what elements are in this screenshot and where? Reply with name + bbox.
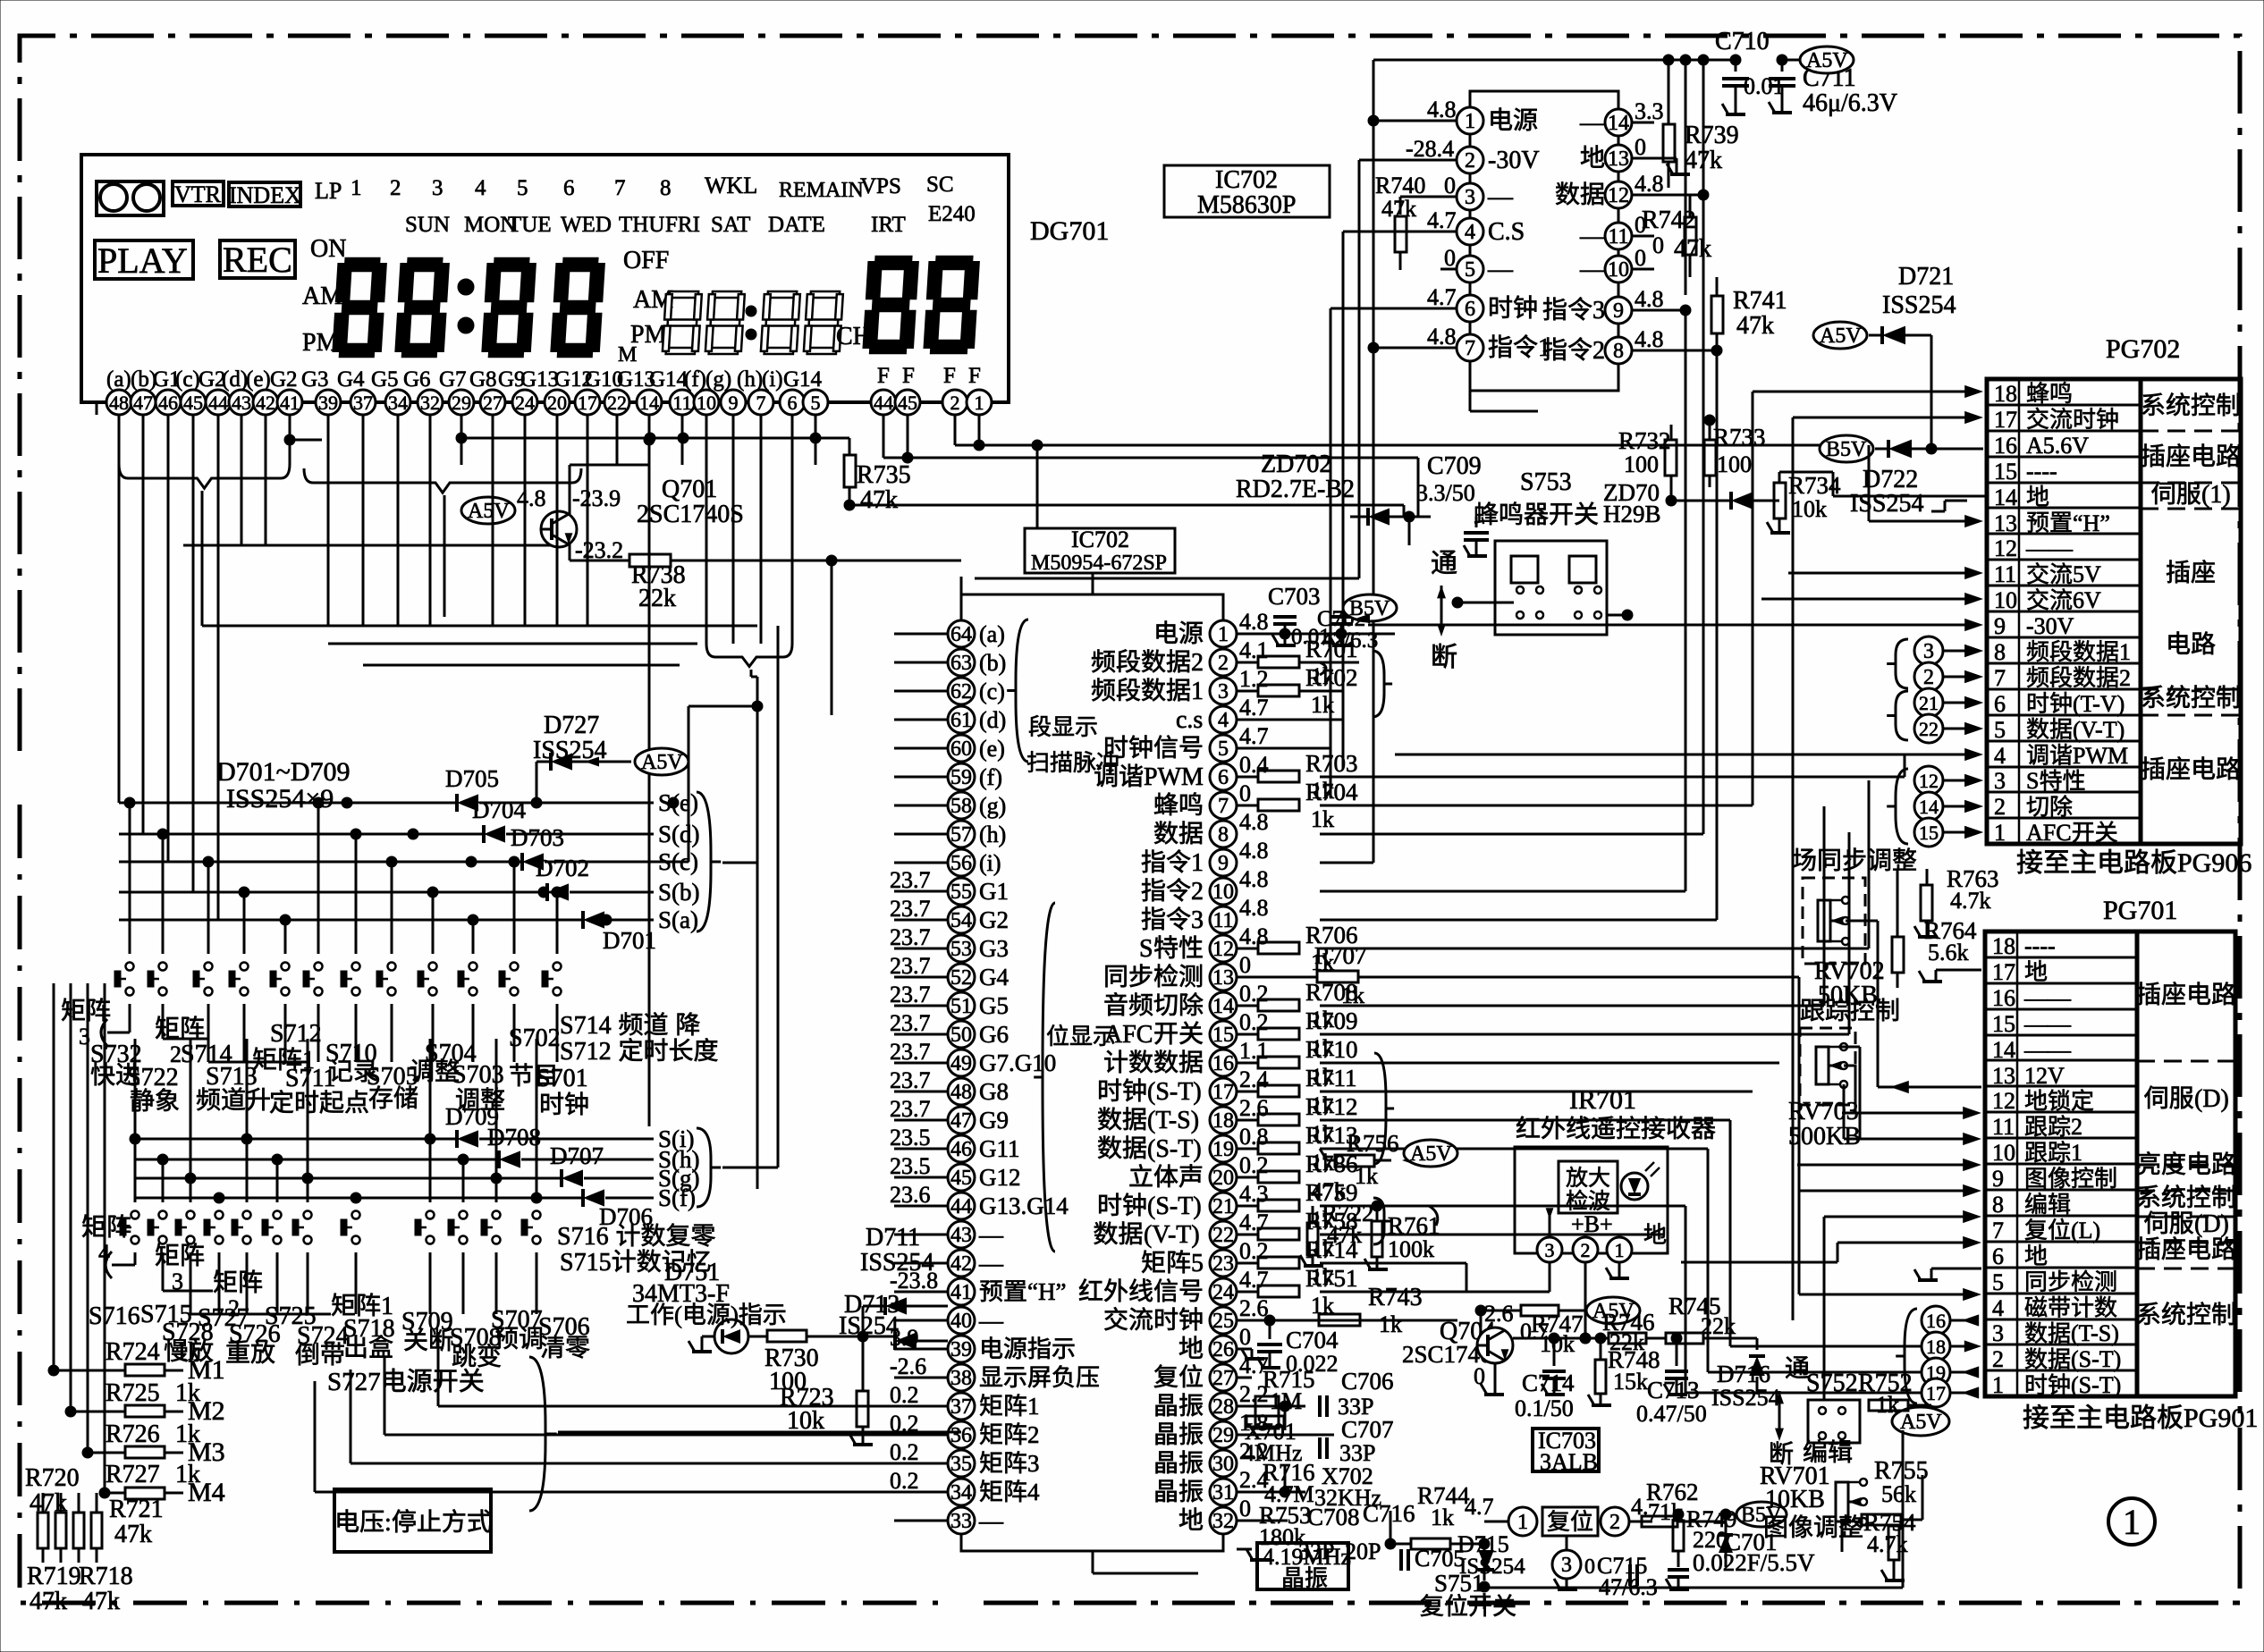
- svg-text:(T-S): (T-S): [2071, 1320, 2119, 1346]
- IC702 pin 34: [948, 1479, 975, 1505]
- circled node 22: [1914, 714, 1943, 743]
- svg-text:4.7k: 4.7k: [1950, 888, 1991, 914]
- wire trunk data VT: [1320, 1234, 1663, 1236]
- svg-text:S716: S716: [89, 1302, 140, 1330]
- IC702 pin 38: [948, 1364, 975, 1391]
- diode D716: [1756, 1338, 1759, 1350]
- matrix bank1 bottom bus: [129, 1021, 131, 1032]
- svg-text:(f): (f): [979, 764, 1002, 790]
- resistor R748: [1600, 1338, 1601, 1355]
- resistor R739: [1668, 60, 1670, 125]
- svg-text:63: 63: [950, 652, 972, 675]
- IC702 pin 33: [948, 1507, 975, 1534]
- svg-text:C704: C704: [1286, 1327, 1339, 1353]
- diode D707: [135, 1177, 561, 1180]
- IC U1 label IC702 M50954-672SP: [1025, 528, 1175, 573]
- supply node A5V lower right: [1892, 1407, 1949, 1436]
- svg-text:4.19MHz: 4.19MHz: [1263, 1544, 1351, 1570]
- IC702 pin 11: [1210, 906, 1237, 933]
- svg-text:12: 12: [1212, 938, 1234, 961]
- svg-text:G4: G4: [979, 964, 1009, 990]
- svg-text:47k: 47k: [30, 1588, 67, 1615]
- brace nodes 12-14-15: [1887, 769, 1908, 844]
- svg-text:46: 46: [158, 392, 178, 414]
- svg-text:1: 1: [1517, 1511, 1528, 1534]
- svg-text:6: 6: [563, 176, 575, 200]
- svg-text:ZD702: ZD702: [1261, 451, 1331, 478]
- svg-text:G5: G5: [979, 992, 1009, 1019]
- svg-text:(V-T): (V-T): [1144, 1221, 1200, 1249]
- wire trunk buzzer: [1752, 392, 1754, 805]
- svg-text:PG906: PG906: [2177, 848, 2251, 878]
- circled sheet number 1: [2108, 1498, 2155, 1545]
- wire trunk image ctl RV701: [1841, 1482, 1843, 1513]
- REC indicator: [220, 240, 295, 278]
- svg-text:10: 10: [1992, 1140, 2015, 1166]
- wire matrix bank1 S-row collector brace: [697, 792, 721, 931]
- svg-text:47k: 47k: [82, 1588, 120, 1615]
- resistor R732: [1665, 440, 1677, 476]
- svg-text:SC: SC: [926, 173, 954, 197]
- wire matrix buses to IC pins 37-34: [438, 1405, 948, 1408]
- main clock digits 88:88: [333, 258, 386, 357]
- svg-text:1: 1: [1191, 678, 1204, 705]
- svg-text:R761: R761: [1388, 1212, 1440, 1239]
- svg-text:C714: C714: [1522, 1370, 1575, 1396]
- svg-text:24: 24: [515, 392, 535, 414]
- wire PG701 13 arrow: [1890, 1081, 1909, 1093]
- svg-text:S(a): S(a): [658, 906, 698, 933]
- wire PG701 12 11 10 arrows: [1963, 1107, 1981, 1119]
- ground M58630P pin13: [1676, 158, 1678, 174]
- svg-text:3: 3: [432, 176, 444, 200]
- svg-text:1k: 1k: [1379, 1311, 1402, 1337]
- svg-text:R732: R732: [1618, 427, 1671, 454]
- wire M58630P bottom: [1469, 391, 1472, 411]
- svg-text:9: 9: [1218, 852, 1229, 875]
- svg-text:28: 28: [1212, 1395, 1234, 1419]
- svg-text:R721: R721: [109, 1496, 164, 1523]
- svg-text:46: 46: [950, 1138, 972, 1161]
- svg-text:M58630P: M58630P: [1197, 191, 1296, 219]
- svg-text:S718: S718: [343, 1315, 395, 1343]
- wire R749 junction to D717 B5V: [1678, 1521, 1726, 1522]
- M58630P pin 14: [1605, 109, 1632, 136]
- svg-text:REMAIN: REMAIN: [779, 179, 864, 202]
- svg-text:5: 5: [811, 392, 821, 414]
- svg-text:(c): (c): [979, 678, 1005, 704]
- svg-text:1: 1: [1191, 849, 1204, 877]
- PG702 group labels: [2142, 393, 2164, 416]
- svg-text:D707: D707: [550, 1142, 604, 1169]
- svg-text:R735: R735: [857, 461, 911, 489]
- wire RV702 wiper: [1796, 1165, 1798, 1191]
- M58630P pin 2: [1457, 147, 1483, 173]
- brace R701 R702 pair: [1373, 651, 1392, 717]
- matrix bank2 verticals: [134, 1139, 137, 1202]
- svg-text:ISS254: ISS254: [1850, 490, 1923, 518]
- svg-text:4.7: 4.7: [1427, 207, 1457, 233]
- svg-text:27: 27: [1212, 1367, 1234, 1390]
- wire bus pins7-6-5: [644, 434, 655, 445]
- wire RV701 to image adjust: [1841, 1521, 1844, 1552]
- svg-text:2: 2: [1992, 1346, 2004, 1372]
- IC702 pin 30: [1210, 1450, 1237, 1477]
- svg-text:59: 59: [950, 766, 972, 789]
- svg-text:12: 12: [1608, 184, 1629, 207]
- brace M1-M4: [529, 1357, 557, 1511]
- svg-text:A5V: A5V: [641, 751, 683, 774]
- svg-text:24: 24: [1212, 1281, 1234, 1304]
- svg-text:1k: 1k: [175, 1379, 200, 1407]
- svg-text:C.S: C.S: [1488, 218, 1525, 246]
- svg-text:1: 1: [2071, 1140, 2082, 1166]
- voltage note box: [334, 1489, 491, 1552]
- svg-text:IR701: IR701: [1569, 1085, 1636, 1115]
- svg-text:2.4: 2.4: [1239, 1066, 1269, 1092]
- PG701 pin 2: [1985, 1344, 2137, 1346]
- svg-text:0: 0: [1239, 1496, 1251, 1521]
- matrix bank2 buses: [80, 1252, 82, 1265]
- svg-text:56: 56: [950, 852, 972, 875]
- wire R735 bus: [849, 504, 1404, 507]
- svg-text:0.2: 0.2: [1239, 1009, 1269, 1035]
- pull resistors R719 R718: [38, 1513, 48, 1548]
- svg-text:3: 3: [1191, 906, 1204, 934]
- PG702 pin 2: [1987, 791, 2141, 794]
- svg-text:4.8: 4.8: [1239, 866, 1269, 892]
- svg-text:R727: R727: [106, 1461, 160, 1488]
- PG702 pin 6: [1987, 688, 2141, 691]
- IC702 pin 32: [1210, 1507, 1237, 1534]
- svg-text:29: 29: [1212, 1424, 1234, 1447]
- wire IR out to pin24: [1549, 1262, 1551, 1292]
- wire IC bottom to ground trace: [1092, 1551, 1094, 1573]
- svg-text:3: 3: [1561, 1554, 1572, 1577]
- svg-text:PG702: PG702: [2106, 334, 2180, 364]
- M58630P pin 6: [1457, 295, 1483, 322]
- svg-text:4: 4: [475, 176, 486, 200]
- svg-text:45: 45: [183, 392, 203, 414]
- svg-text:2: 2: [1191, 649, 1204, 677]
- capacitor C713: [1671, 1333, 1682, 1344]
- svg-text:1: 1: [975, 392, 984, 414]
- IC702 pin 48: [948, 1078, 975, 1105]
- svg-text:(T-V): (T-V): [2073, 691, 2125, 717]
- wire long verticals from display to matrix: [118, 465, 121, 803]
- wire R738 junction vertical: [831, 560, 833, 715]
- IC702 pin 27: [1210, 1364, 1237, 1391]
- svg-text:—: —: [1579, 223, 1606, 250]
- svg-text:(S-T): (S-T): [2071, 1346, 2121, 1372]
- PG701 pin 7: [1985, 1215, 2137, 1218]
- diode D706: [135, 1197, 582, 1200]
- svg-text:H29B: H29B: [1603, 501, 1661, 527]
- wire trunk 12V RV702: [1878, 920, 1887, 922]
- circled node 18: [1922, 1332, 1950, 1361]
- svg-text:17: 17: [1992, 959, 2015, 985]
- svg-text:S712: S712: [270, 1020, 322, 1048]
- IC702 pin 45: [948, 1164, 975, 1191]
- svg-text:2: 2: [1465, 149, 1475, 173]
- svg-text:D711: D711: [866, 1224, 920, 1252]
- svg-text:—: —: [978, 1307, 1004, 1334]
- svg-text:G13.G14: G13.G14: [979, 1193, 1069, 1219]
- svg-text:G2: G2: [270, 367, 298, 392]
- svg-text:6: 6: [788, 392, 798, 414]
- svg-text::: :: [384, 1509, 392, 1537]
- IC702 pin 4: [1210, 706, 1237, 733]
- circled node 16: [1922, 1306, 1950, 1335]
- svg-text:2: 2: [1218, 652, 1229, 675]
- svg-text:ISS254: ISS254: [1711, 1385, 1780, 1411]
- svg-text:S715: S715: [560, 1249, 612, 1277]
- label PG906: [2017, 849, 2042, 874]
- svg-text:—: —: [978, 1250, 1004, 1277]
- M58630P pin 10: [1605, 256, 1632, 282]
- reset block circles: [1508, 1507, 1537, 1536]
- long wire main IC pins to right connectors: [1320, 662, 1326, 675]
- svg-text:37: 37: [353, 392, 373, 414]
- svg-text:0: 0: [1652, 232, 1664, 258]
- wires from display pins down: [118, 415, 121, 465]
- potentiometer RV702: [1803, 878, 1865, 964]
- resistor R708: [1237, 1005, 1257, 1007]
- svg-text:18: 18: [1926, 1336, 1946, 1358]
- svg-text:C709: C709: [1427, 452, 1482, 480]
- wire C705 cap: [1399, 1549, 1403, 1571]
- svg-text:0: 0: [1444, 173, 1456, 198]
- resistor R740: [1395, 216, 1407, 252]
- svg-text:1: 1: [1992, 1372, 2004, 1398]
- IC702 pin 44: [948, 1193, 975, 1219]
- IC702 pin 12: [1210, 935, 1237, 962]
- PG701 pin 13: [1985, 1059, 2137, 1062]
- wire trunk matrix5: [1320, 1262, 1466, 1265]
- svg-text:3: 3: [1923, 640, 1934, 663]
- circled node 15: [1914, 818, 1943, 847]
- wire bank1 col drops to bus: [616, 438, 619, 465]
- svg-text:-2.6: -2.6: [890, 1353, 926, 1379]
- svg-text:64: 64: [950, 623, 972, 646]
- IC702 pin 36: [948, 1421, 975, 1448]
- resistor R761: [1372, 1221, 1382, 1257]
- svg-text:0: 0: [1239, 952, 1251, 978]
- svg-text:1.2: 1.2: [1239, 666, 1269, 692]
- IC702 pin 1: [1210, 620, 1237, 647]
- svg-text:4.7: 4.7: [1239, 1267, 1269, 1293]
- svg-text:c.s: c.s: [1176, 706, 1203, 734]
- wire pin26 ground: [1237, 1348, 1252, 1351]
- wire trunk clock ST2: [1320, 1205, 1685, 1208]
- svg-text:16: 16: [1994, 433, 2017, 459]
- IC702 pin 40: [948, 1307, 975, 1334]
- wire bus middle verticals: [1668, 188, 1669, 392]
- svg-text:(S-T): (S-T): [2071, 1372, 2121, 1398]
- svg-text:2: 2: [1923, 666, 1934, 689]
- capacitor C704: [1264, 1315, 1275, 1326]
- svg-text:0.1/50: 0.1/50: [1515, 1395, 1574, 1421]
- svg-text:58: 58: [950, 795, 972, 818]
- svg-text:G14: G14: [649, 367, 688, 392]
- label tracking control: [1801, 999, 1824, 1022]
- svg-text:G8: G8: [979, 1078, 1009, 1105]
- svg-text:2: 2: [1581, 1239, 1591, 1261]
- svg-text:): ): [731, 1302, 739, 1328]
- wire pin14 long vertical: [648, 440, 651, 1126]
- svg-text:S727: S727: [327, 1368, 381, 1396]
- wires crystal cluster: [1237, 1405, 1305, 1408]
- wire sync det down: [1798, 1294, 1800, 1295]
- svg-text:32: 32: [1212, 1510, 1234, 1533]
- svg-text:R733: R733: [1713, 424, 1766, 451]
- capacitor C714: [1553, 1338, 1555, 1359]
- IC702 pin 42: [948, 1250, 975, 1277]
- IC702 pin 10: [1210, 878, 1237, 905]
- svg-text:——: ——: [2025, 535, 2074, 561]
- wire IC702 label box stub: [1092, 572, 1094, 594]
- svg-text:——: ——: [2023, 985, 2072, 1011]
- resistor R756: [1335, 1155, 1374, 1167]
- svg-text:5: 5: [1994, 717, 2006, 743]
- svg-text:D702: D702: [536, 855, 589, 881]
- svg-text:7: 7: [1994, 665, 2006, 691]
- label PG901: [2023, 1404, 2049, 1429]
- svg-text:19: 19: [1212, 1138, 1234, 1161]
- svg-text:34: 34: [388, 392, 408, 414]
- svg-text:3: 3: [1027, 1450, 1040, 1477]
- svg-text:21: 21: [1212, 1195, 1234, 1218]
- svg-text:11: 11: [1212, 909, 1233, 932]
- svg-text:A5V: A5V: [1900, 1411, 1942, 1434]
- IR701 LED: [1621, 1173, 1648, 1200]
- wire pin7 pin6 drops to brace: [760, 415, 763, 644]
- wire r756 feed: [1320, 1149, 1327, 1160]
- svg-text:DG701: DG701: [1030, 216, 1109, 246]
- wire trunk data TS: [1320, 1119, 1730, 1122]
- PG702 pin 4: [1987, 740, 2141, 743]
- svg-text:M: M: [618, 343, 637, 367]
- svg-text:0.2: 0.2: [1239, 1152, 1269, 1178]
- IC702 pin 22: [1210, 1221, 1237, 1248]
- PG702 pin 13: [1987, 507, 2141, 510]
- diode D711 on pin41: [885, 1297, 907, 1314]
- svg-text:5: 5: [1465, 258, 1475, 282]
- svg-text:G8: G8: [469, 367, 497, 392]
- M58630P pin 9: [1605, 297, 1632, 324]
- IC702 M50954-672SP body: [961, 594, 1223, 1551]
- svg-text:0: 0: [1635, 245, 1646, 271]
- wire R755 R754 net: [1861, 1519, 1863, 1521]
- wire trunk reset pin27: [1237, 1377, 1252, 1379]
- svg-text:0.2: 0.2: [1239, 1238, 1269, 1264]
- resistor R713: [1237, 1148, 1257, 1150]
- svg-text:G6: G6: [403, 367, 431, 392]
- svg-text:39: 39: [318, 392, 338, 414]
- IC702 pin 23: [1210, 1250, 1237, 1277]
- wire trunk sync detect: [1798, 977, 1801, 1294]
- PG701 pin 15: [1985, 1008, 2137, 1011]
- svg-text:D716: D716: [1717, 1361, 1770, 1387]
- IR701 pins 3 2 1: [1537, 1237, 1562, 1262]
- M58630P pin 12: [1605, 181, 1632, 208]
- svg-text:4: 4: [1027, 1479, 1040, 1505]
- svg-text:17: 17: [1926, 1382, 1946, 1404]
- svg-text:47: 47: [950, 1109, 972, 1133]
- IC702 pin 41: [948, 1278, 975, 1305]
- svg-text:10k: 10k: [787, 1407, 824, 1435]
- supply node A5V ir: [1586, 1297, 1640, 1324]
- svg-text:G12: G12: [979, 1164, 1021, 1191]
- svg-text:4.1: 4.1: [1239, 637, 1269, 663]
- svg-text:15: 15: [1919, 822, 1939, 844]
- svg-text:A5V: A5V: [1806, 49, 1848, 72]
- svg-text:THU: THU: [619, 213, 664, 237]
- svg-text:R707: R707: [1314, 942, 1367, 969]
- svg-text:C713: C713: [1647, 1377, 1700, 1403]
- svg-text:2: 2: [1994, 794, 2006, 820]
- svg-text:10: 10: [1212, 881, 1234, 904]
- svg-text:23.7: 23.7: [890, 1096, 931, 1122]
- svg-text:23.7: 23.7: [890, 896, 931, 922]
- wire from S752 right: [1930, 1404, 1932, 1406]
- svg-text:11: 11: [1994, 561, 2016, 587]
- wire trunk cs/clock from M58630P: [1342, 720, 1344, 769]
- IC702 pin 37: [948, 1393, 975, 1420]
- IC702 pin 29: [1210, 1421, 1237, 1448]
- wire pins 27 24 20 17 long drops: [492, 465, 494, 626]
- svg-text:—: —: [978, 1507, 1004, 1534]
- M58630P pin 11: [1605, 223, 1632, 249]
- wire M58630P right pins: [1632, 122, 1654, 124]
- svg-text:C706: C706: [1341, 1368, 1394, 1395]
- wire trunk S-char to circled 12: [1320, 948, 1869, 950]
- svg-text:VPS: VPS: [860, 174, 901, 198]
- PG702 pin 11: [1987, 559, 2141, 561]
- svg-text:—: —: [1579, 109, 1606, 137]
- svg-text:37: 37: [950, 1395, 972, 1419]
- matrix bank1 junction dots: [342, 797, 352, 808]
- IC702 pin 49: [948, 1049, 975, 1076]
- svg-text:S: S: [2026, 768, 2039, 794]
- IC702 pin 17: [1210, 1078, 1237, 1105]
- wire x1160 drop: [1036, 445, 1039, 528]
- svg-text:21: 21: [1919, 692, 1939, 714]
- svg-text:32: 32: [420, 392, 440, 414]
- wire pin21 bend: [1429, 1206, 1438, 1226]
- svg-text:S716: S716: [557, 1223, 609, 1251]
- svg-text:S753: S753: [1520, 468, 1572, 496]
- diode D703: [119, 861, 521, 864]
- resistor R707: [1317, 971, 1358, 982]
- svg-text:(S-T): (S-T): [1147, 1193, 1202, 1220]
- svg-text:(c): (c): [175, 367, 200, 392]
- resistor R722: [1307, 1223, 1318, 1255]
- resistor R786: [1237, 1176, 1257, 1179]
- svg-text:R741: R741: [1733, 287, 1787, 315]
- svg-text:29: 29: [452, 392, 471, 414]
- capacitor C710: [1730, 55, 1741, 65]
- brace under pins 10 9 7 6: [706, 644, 792, 667]
- svg-text:G1: G1: [979, 878, 1009, 905]
- wire top supply bus: [1373, 59, 1736, 62]
- PG701 pin 12: [1985, 1085, 2137, 1088]
- svg-text:PLAY: PLAY: [97, 240, 188, 281]
- diode D708: [135, 1159, 498, 1161]
- svg-text:OFF: OFF: [623, 247, 669, 274]
- svg-text:7: 7: [1218, 795, 1229, 818]
- svg-text:3ALB: 3ALB: [1540, 1449, 1598, 1475]
